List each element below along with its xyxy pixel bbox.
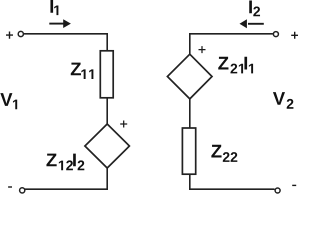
label I2 [249, 0, 260, 16]
terminal circle: port-2 top [273, 32, 278, 37]
label V1 [0, 93, 17, 109]
dependent source Z12I2 (diamond body) [85, 124, 129, 168]
polarity + of source Z12I2 [120, 121, 127, 128]
terminal circle: port-1 bottom [20, 188, 25, 193]
current arrow I2 (points left) [240, 19, 264, 28]
terminal circle: port-1 top [18, 31, 23, 36]
label Z21I1 [218, 57, 253, 74]
wire: source Z12I2 bottom to port-1 bottom lead [24, 168, 107, 189]
polarity - at port-2 bottom terminal [292, 184, 296, 186]
label Z11 [71, 63, 94, 79]
impedance Z11 (rectangle body) [100, 51, 113, 98]
polarity + at port-1 top terminal [6, 32, 13, 39]
polarity + of source Z21I1 [199, 46, 206, 53]
dependent source Z21I1 (diamond body) [167, 54, 212, 99]
polarity + at port-2 top terminal [291, 32, 298, 39]
label V2 [273, 92, 294, 109]
wire: port-1 top lead (terminal to Z11 top) [24, 34, 108, 51]
label Z22 [211, 145, 237, 162]
impedance Z22 (rectangle body) [182, 128, 195, 174]
wire: source Z21I1 bottom to Z22 top [189, 99, 191, 128]
terminal circle: port-2 bottom [275, 188, 280, 193]
wire: Z11 bottom to source Z12I2 top [106, 98, 108, 124]
wire: Z22 bottom to port-2 bottom lead [190, 174, 275, 189]
polarity - at port-1 bottom terminal [8, 186, 12, 188]
wire: port-2 top lead (terminal to source Z21I1 top) [190, 34, 273, 54]
label I1 [50, 0, 58, 15]
label Z12I2 [46, 154, 84, 171]
current arrow I1 (points right) [49, 19, 71, 28]
